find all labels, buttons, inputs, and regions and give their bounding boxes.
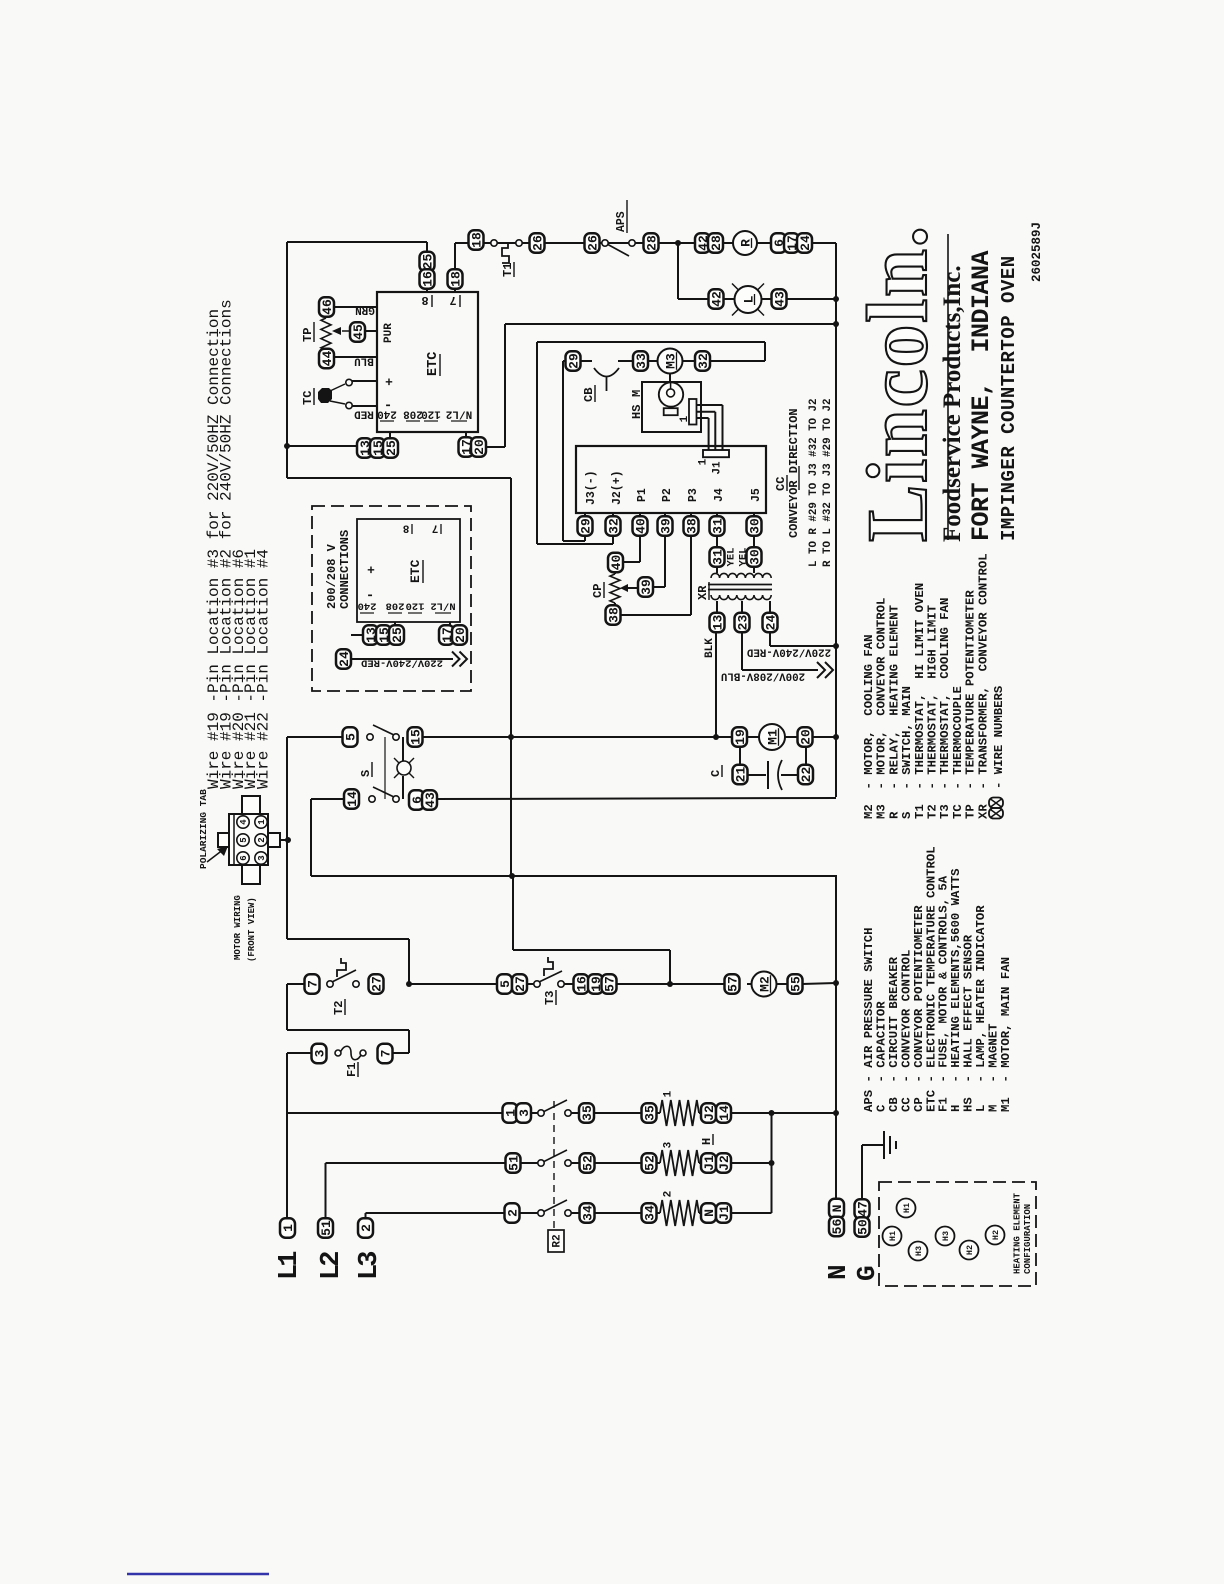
svg-text:24: 24: [337, 651, 352, 667]
svg-text:20: 20: [453, 627, 468, 643]
svg-text:30: 30: [747, 549, 762, 565]
svg-text:38: 38: [606, 607, 621, 623]
svg-text:2: 2: [257, 837, 267, 842]
svg-text:30: 30: [747, 518, 762, 534]
svg-text:31: 31: [710, 549, 725, 565]
svg-text:YEL: YEL: [725, 548, 737, 567]
svg-text:3: 3: [517, 1109, 532, 1117]
svg-text:7: 7: [378, 1050, 393, 1058]
svg-text:15: 15: [408, 729, 423, 745]
svg-text:MOTOR WIRING: MOTOR WIRING: [233, 895, 243, 960]
svg-text:1: 1: [663, 1090, 675, 1097]
svg-text:16: 16: [420, 271, 435, 287]
svg-text:24: 24: [763, 615, 778, 631]
svg-text:1: 1: [281, 1224, 296, 1232]
svg-text:2: 2: [663, 1191, 675, 1198]
svg-text:240: 240: [358, 600, 377, 612]
svg-text:44: 44: [320, 351, 335, 367]
svg-text:43: 43: [772, 291, 787, 307]
svg-text:56: 56: [830, 1219, 845, 1235]
svg-text:32: 32: [696, 353, 711, 369]
svg-text:6: 6: [239, 855, 249, 860]
svg-text:P1: P1: [636, 488, 649, 502]
svg-text:H2: H2: [991, 1230, 1001, 1240]
svg-text:25: 25: [384, 440, 399, 456]
svg-text:P3: P3: [687, 488, 700, 502]
svg-text:J1: J1: [702, 1155, 717, 1171]
svg-text:J5: J5: [750, 488, 763, 502]
svg-text:3: 3: [312, 1049, 327, 1057]
svg-text:H: H: [700, 1138, 714, 1145]
svg-text:2: 2: [505, 1209, 520, 1217]
svg-text:46: 46: [320, 299, 335, 315]
svg-text:24: 24: [798, 235, 813, 251]
svg-text:S: S: [359, 770, 373, 777]
svg-text:21: 21: [733, 767, 748, 783]
svg-text:240: 240: [377, 407, 397, 419]
svg-text:XR: XR: [696, 585, 710, 600]
svg-text:2602589J: 2602589J: [1030, 222, 1044, 282]
svg-text:34: 34: [642, 1205, 657, 1221]
svg-text:HS: HS: [630, 405, 644, 419]
svg-text:(FRONT VIEW): (FRONT VIEW): [247, 897, 257, 962]
svg-text:14: 14: [345, 791, 360, 807]
svg-text:YEL: YEL: [737, 548, 749, 567]
svg-text:28: 28: [709, 235, 724, 251]
svg-text:42: 42: [709, 291, 724, 307]
svg-text:200/208 V: 200/208 V: [325, 543, 339, 609]
svg-text:HEATING ELEMENT: HEATING ELEMENT: [1013, 1192, 1023, 1274]
svg-text:F1: F1: [345, 1063, 359, 1077]
svg-text:39: 39: [658, 518, 673, 534]
svg-text:20: 20: [472, 439, 487, 455]
svg-text:27: 27: [369, 976, 384, 992]
svg-text:33: 33: [634, 353, 649, 369]
svg-text:208: 208: [386, 600, 405, 612]
svg-text:T3: T3: [543, 991, 557, 1005]
svg-text:29: 29: [566, 353, 581, 369]
svg-text:RED: RED: [354, 407, 374, 419]
svg-text:N/L2: N/L2: [430, 600, 455, 612]
svg-text:26: 26: [530, 235, 545, 251]
svg-text:23: 23: [735, 615, 750, 631]
svg-text:3: 3: [663, 1141, 675, 1148]
svg-text:+: +: [385, 374, 393, 389]
svg-text:N: N: [702, 1209, 717, 1217]
svg-text:PUR: PUR: [383, 323, 395, 343]
svg-text:51: 51: [319, 1220, 334, 1236]
svg-text:52: 52: [580, 1155, 595, 1171]
svg-text:T2: T2: [332, 1001, 346, 1015]
svg-text:25: 25: [420, 254, 435, 270]
svg-text:N: N: [830, 1205, 845, 1213]
svg-text:ETC: ETC: [426, 352, 441, 376]
svg-text:H2: H2: [965, 1245, 975, 1255]
svg-text:1: 1: [679, 415, 691, 422]
svg-text:R2: R2: [552, 1234, 564, 1247]
svg-text:8: 8: [402, 521, 409, 533]
svg-text:CONFIGURATION: CONFIGURATION: [1023, 1204, 1033, 1274]
svg-text:27: 27: [513, 976, 528, 992]
svg-text:200V/208V-BLU: 200V/208V-BLU: [721, 669, 805, 681]
svg-text:4: 4: [239, 819, 249, 825]
svg-text:220V/240V-RED: 220V/240V-RED: [746, 645, 831, 657]
svg-text:J2: J2: [717, 1155, 732, 1171]
svg-text:35: 35: [642, 1105, 657, 1121]
svg-text:POLARIZING TAB: POLARIZING TAB: [198, 789, 209, 869]
svg-text:39: 39: [639, 579, 654, 595]
svg-text:+: +: [367, 562, 375, 577]
svg-text:13: 13: [710, 615, 725, 631]
svg-text:FORT WAYNE, INDIANA: FORT WAYNE, INDIANA: [967, 250, 996, 541]
svg-text:L3: L3: [355, 1252, 385, 1280]
svg-text:28: 28: [644, 235, 659, 251]
svg-text:CP: CP: [591, 584, 605, 598]
svg-text:APS: APS: [615, 211, 628, 232]
svg-text:TP: TP: [301, 328, 315, 342]
svg-text:55: 55: [788, 976, 803, 992]
svg-text:GRN: GRN: [355, 303, 375, 315]
svg-text:29: 29: [578, 518, 593, 534]
svg-text:5: 5: [239, 837, 249, 842]
svg-text:57: 57: [725, 976, 740, 992]
svg-text:120: 120: [406, 600, 425, 612]
svg-text:7: 7: [305, 980, 320, 988]
svg-text:CONNECTIONS: CONNECTIONS: [338, 530, 352, 609]
svg-text:TC: TC: [301, 391, 315, 405]
svg-text:32: 32: [606, 518, 621, 534]
svg-text:22: 22: [799, 767, 814, 783]
svg-text:7: 7: [432, 521, 439, 533]
svg-text:35: 35: [580, 1105, 595, 1121]
svg-text:3: 3: [257, 855, 267, 860]
svg-text:R TO L #32 TO J3 #29 TO J2: R TO L #32 TO J3 #29 TO J2: [822, 399, 834, 567]
svg-text:208: 208: [403, 407, 423, 419]
svg-text:C: C: [709, 770, 723, 777]
svg-text:L2: L2: [317, 1252, 347, 1280]
svg-text:J3(-): J3(-): [585, 470, 598, 505]
svg-text:XR - TRANSFORMER, CONVEYOR C: XR - TRANSFORMER, CONVEYOR CONTROL: [976, 553, 990, 819]
svg-text:J1: J1: [717, 1205, 732, 1221]
svg-text:CB: CB: [582, 388, 596, 402]
svg-text:120: 120: [421, 407, 441, 419]
svg-text:M1 - MOTOR, MAIN FAN: M1 - MOTOR, MAIN FAN: [999, 957, 1013, 1112]
svg-text:57: 57: [602, 976, 617, 992]
svg-text:25: 25: [390, 627, 405, 643]
svg-text:52: 52: [642, 1155, 657, 1171]
svg-text:1: 1: [257, 819, 267, 825]
svg-text:H3: H3: [941, 1231, 951, 1241]
svg-text:8: 8: [421, 293, 428, 307]
svg-text:51: 51: [506, 1155, 521, 1171]
svg-text:P2: P2: [661, 488, 674, 502]
svg-text:18: 18: [448, 271, 463, 287]
svg-text:CC: CC: [774, 477, 788, 491]
svg-text:34: 34: [580, 1205, 595, 1221]
svg-text:220V/240V-RED: 220V/240V-RED: [361, 657, 443, 669]
svg-text:2: 2: [359, 1224, 374, 1232]
svg-text:M: M: [630, 390, 644, 397]
svg-text:Wire #22 -Pin Location #4: Wire #22 -Pin Location #4: [255, 549, 273, 789]
svg-text:40: 40: [633, 518, 648, 534]
svg-text:47: 47: [855, 1201, 870, 1217]
svg-text:18: 18: [469, 232, 484, 248]
svg-text:26: 26: [585, 235, 600, 251]
svg-text:7: 7: [449, 293, 456, 307]
svg-text:G: G: [852, 1265, 882, 1281]
svg-text:T1: T1: [501, 263, 515, 277]
svg-text:BLK: BLK: [704, 638, 716, 658]
svg-text:IMPINGER COUNTERTOP OVEN: IMPINGER COUNTERTOP OVEN: [998, 255, 1020, 541]
svg-text:19: 19: [733, 729, 748, 745]
svg-text:J1: J1: [712, 461, 724, 475]
svg-text:14: 14: [717, 1105, 732, 1121]
svg-text:H1: H1: [888, 1231, 898, 1241]
svg-text:5: 5: [343, 733, 358, 741]
svg-text:J2: J2: [702, 1105, 717, 1121]
svg-text:Foodservice Products,Inc.: Foodservice Products,Inc.: [939, 265, 966, 542]
svg-text:43: 43: [423, 792, 438, 808]
svg-text:N/L2: N/L2: [446, 407, 472, 419]
svg-text:50: 50: [855, 1219, 870, 1235]
svg-text:BLU: BLU: [354, 354, 374, 366]
svg-text:ETC: ETC: [408, 559, 423, 583]
svg-text:- WIRE NUMBERS: - WIRE NUMBERS: [992, 686, 1006, 789]
svg-text:L TO R #29 TO J3 #32 TO J2: L TO R #29 TO J3 #32 TO J2: [808, 399, 820, 567]
svg-text:L1: L1: [275, 1251, 305, 1280]
svg-text:N: N: [823, 1264, 853, 1280]
svg-text:J2(+): J2(+): [611, 470, 624, 505]
svg-text:40: 40: [609, 555, 624, 571]
svg-text:Lincoln.: Lincoln.: [849, 224, 945, 542]
svg-text:38: 38: [684, 518, 699, 534]
svg-text:45: 45: [351, 324, 366, 340]
svg-text:5: 5: [498, 980, 513, 988]
svg-text:31: 31: [710, 518, 725, 534]
svg-text:H1: H1: [902, 1203, 912, 1213]
svg-text:20: 20: [798, 729, 813, 745]
svg-text:H3: H3: [914, 1246, 924, 1256]
svg-text:1: 1: [698, 458, 710, 465]
svg-text:J4: J4: [713, 488, 726, 502]
